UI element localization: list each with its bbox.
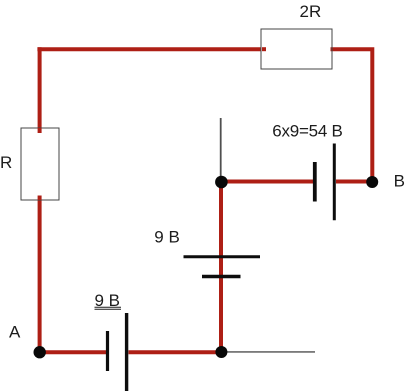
svg-text:6x9=54 В: 6x9=54 В xyxy=(272,122,342,141)
svg-text:2R: 2R xyxy=(300,2,322,21)
svg-text:9 В: 9 В xyxy=(154,228,180,247)
svg-text:R: R xyxy=(0,153,12,172)
svg-text:A: A xyxy=(9,323,21,342)
svg-text:B: B xyxy=(394,172,405,191)
